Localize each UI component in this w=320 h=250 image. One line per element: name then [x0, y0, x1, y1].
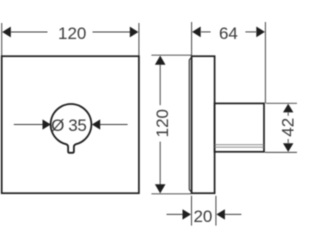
svg-text:64: 64: [219, 24, 238, 43]
svg-text:20: 20: [193, 207, 212, 226]
svg-text:Ø 35: Ø 35: [51, 116, 86, 135]
svg-text:42: 42: [279, 118, 298, 137]
svg-text:120: 120: [153, 109, 172, 137]
svg-text:120: 120: [58, 24, 86, 43]
